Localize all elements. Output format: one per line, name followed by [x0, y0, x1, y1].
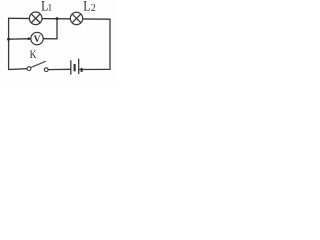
lamp L1: [29, 12, 42, 25]
node junction left wire: [7, 38, 10, 41]
svg-text:1: 1: [48, 3, 53, 13]
switch K blade: [31, 62, 45, 68]
switch K contact left: [27, 67, 31, 71]
wire voltmeter branch vertical: [56, 19, 58, 39]
voltmeter U1: [31, 32, 43, 44]
battery cell short thick plate 2: [81, 68, 83, 72]
switch K contact right: [44, 68, 48, 72]
svg-text:V: V: [34, 35, 41, 45]
wire battery to bottom-right corner: [79, 68, 110, 70]
wire voltmeter branch left: [9, 38, 31, 41]
svg-text:L: L: [83, 0, 90, 15]
battery cell long plate 1: [70, 60, 72, 74]
wire bottom-left to switch: [9, 68, 28, 71]
battery cell long plate 2: [78, 59, 80, 74]
wire left: [8, 18, 10, 69]
voltmeter terminal dot: [27, 37, 30, 40]
node junction top (between L1 and L2): [56, 17, 59, 20]
lamp L2: [70, 12, 82, 24]
wire top: [9, 17, 110, 20]
svg-text:2: 2: [91, 3, 96, 14]
wire voltmeter branch right: [43, 38, 57, 40]
svg-text:K: K: [30, 47, 37, 61]
battery cell short thick plate: [74, 64, 76, 71]
wire switch to battery: [48, 68, 70, 70]
wire right: [109, 19, 111, 69]
